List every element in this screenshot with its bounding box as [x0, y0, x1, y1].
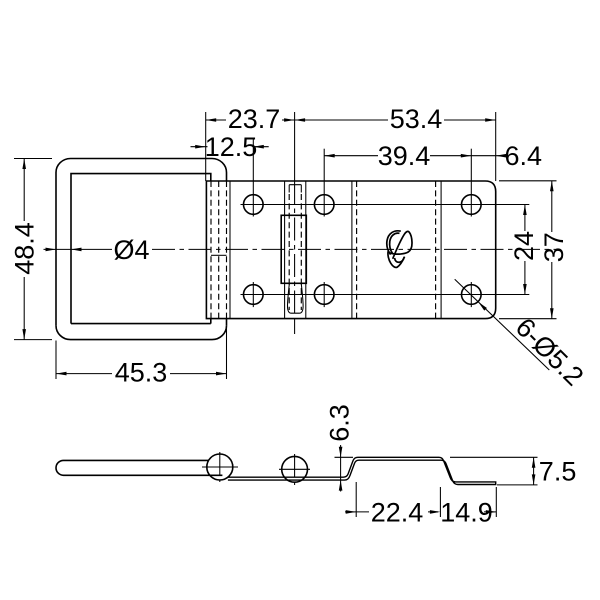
svg-text:37: 37	[539, 232, 569, 262]
svg-text:12.5: 12.5	[205, 132, 258, 162]
svg-text:7.5: 7.5	[539, 457, 577, 487]
svg-text:45.3: 45.3	[115, 358, 168, 388]
svg-text:6.4: 6.4	[505, 141, 543, 171]
svg-text:48.4: 48.4	[10, 222, 40, 275]
svg-text:14.9: 14.9	[440, 497, 493, 527]
svg-text:24: 24	[509, 231, 539, 261]
svg-text:22.4: 22.4	[371, 497, 424, 527]
svg-text:23.7: 23.7	[228, 104, 281, 134]
svg-text:53.4: 53.4	[390, 104, 443, 134]
svg-text:Ø4: Ø4	[114, 235, 150, 265]
svg-text:6.3: 6.3	[325, 404, 355, 442]
svg-text:39.4: 39.4	[378, 141, 431, 171]
